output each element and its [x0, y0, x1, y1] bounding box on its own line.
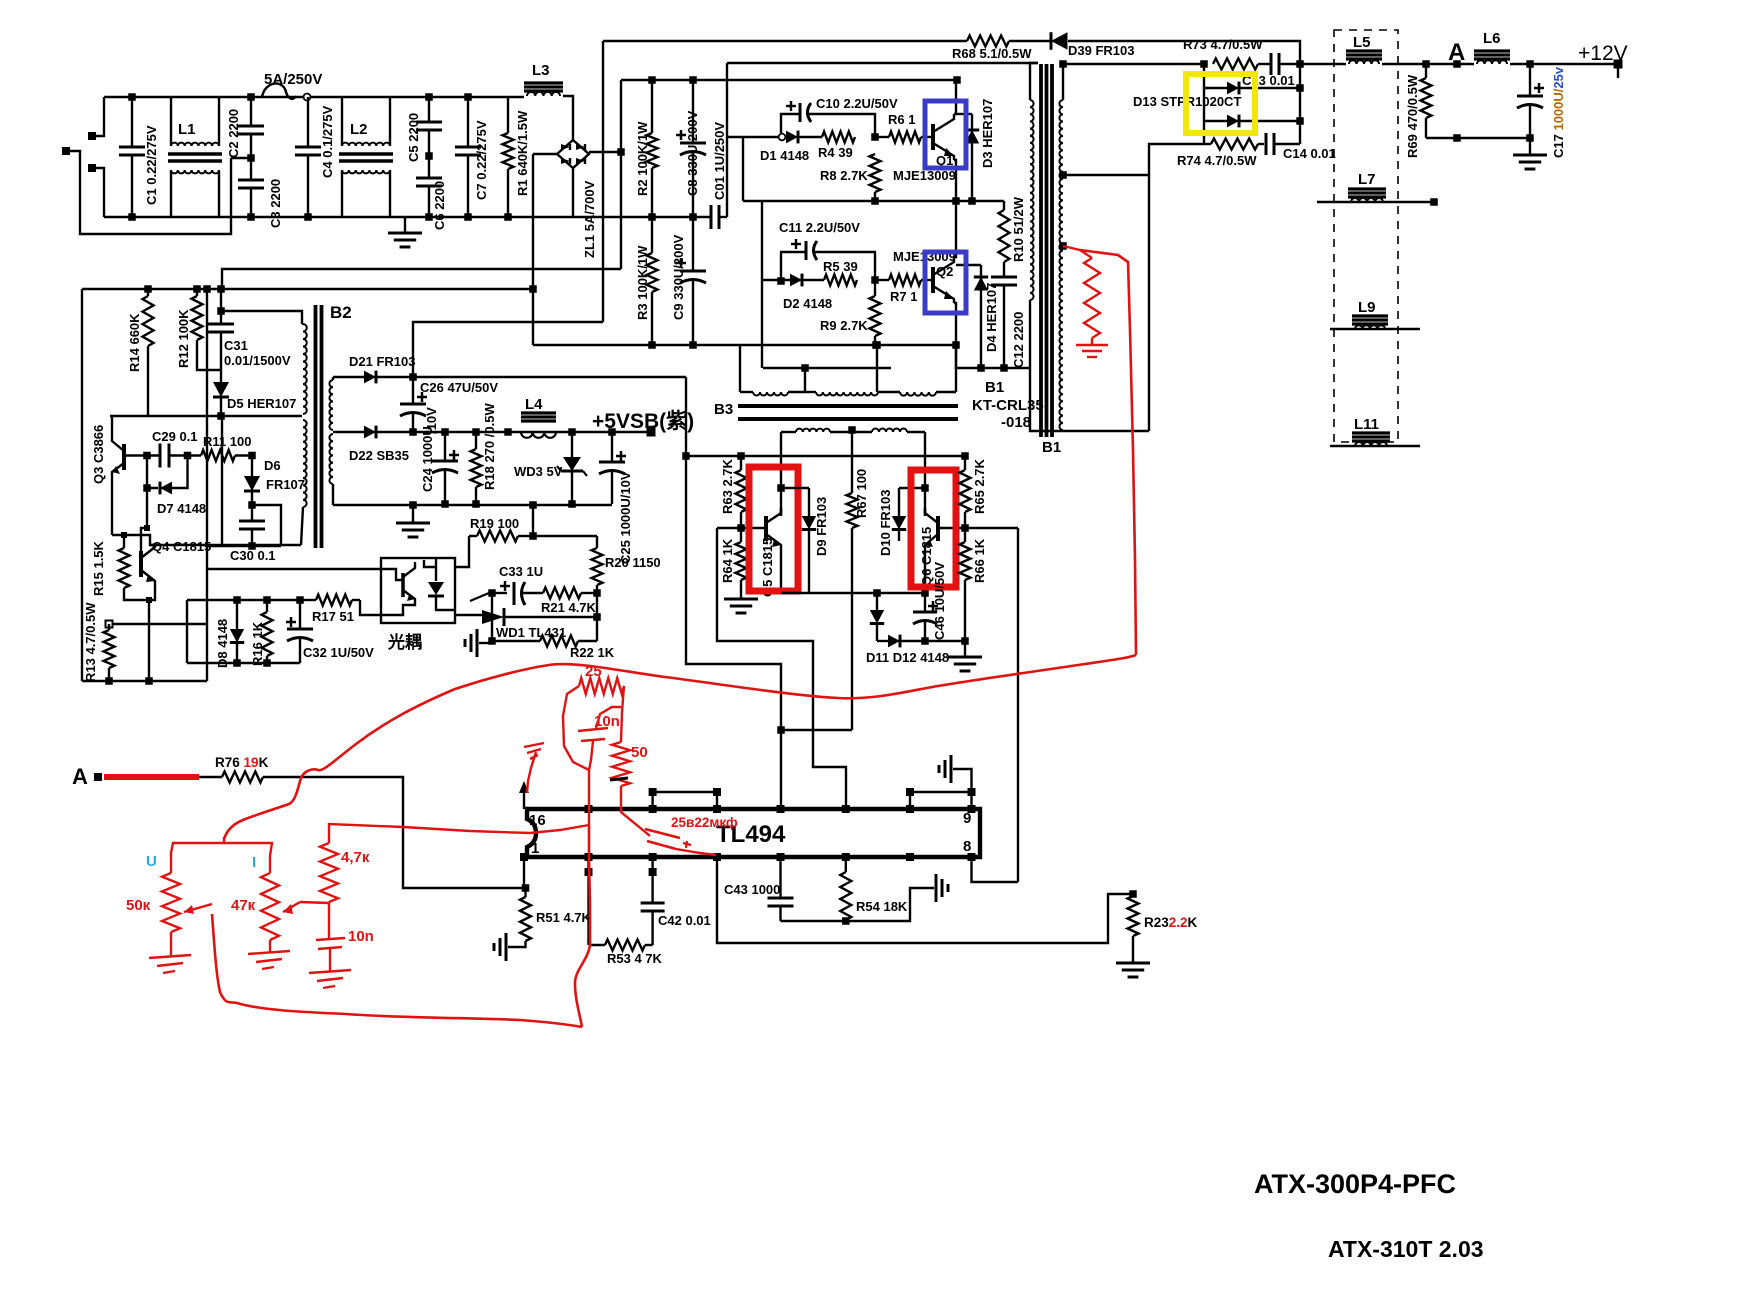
svg-text:FR107: FR107 — [266, 477, 305, 492]
wire long horizontal y289 — [82, 288, 533, 290]
resistor R20 1150 — [596, 536, 598, 548]
ground 5VSB — [412, 505, 414, 523]
capacitor C10 2.2U/50V — [781, 114, 800, 133]
zener WD3 5V — [571, 432, 573, 457]
wire midline y201 — [743, 200, 1004, 202]
blue box Q2 — [925, 252, 966, 313]
wire opto right bottom to WD1 — [455, 614, 482, 616]
wire B3 sec left riser — [780, 432, 782, 516]
shunt WD1 TL431 — [482, 610, 504, 624]
svg-text:R16 1K: R16 1K — [250, 621, 265, 666]
diode D7 4148 — [147, 456, 158, 489]
inductor L9 — [1330, 328, 1420, 330]
inductor L11 — [1330, 445, 1420, 447]
wire B3 primary risers — [876, 344, 878, 392]
svg-text:C42 0.01: C42 0.01 — [658, 913, 711, 928]
transformer B3 primary — [739, 344, 741, 392]
resistor R1 640K/1.5W — [507, 97, 509, 133]
capacitor C2 2200 — [250, 97, 252, 126]
wire mid rail y217 right — [573, 216, 711, 218]
resistor R4 39 — [822, 132, 855, 143]
svg-text:R10 51/2W: R10 51/2W — [1011, 196, 1026, 262]
inductor L6 — [1474, 49, 1510, 52]
ground D12 C46 — [964, 641, 966, 656]
resistor R53 4.7K — [589, 944, 606, 946]
svg-text:R63 2.7K: R63 2.7K — [720, 458, 735, 514]
svg-text:C30 0.1: C30 0.1 — [230, 548, 276, 563]
svg-text:D3 HER107: D3 HER107 — [980, 99, 995, 168]
capacitor C13 0.01 — [1258, 63, 1271, 65]
svg-text:B1: B1 — [1042, 439, 1061, 456]
wire top rail — [104, 96, 524, 98]
wire Q6 base ext — [965, 527, 1018, 529]
wire block bottom y416 — [110, 415, 302, 417]
wire base line left stair — [717, 528, 846, 805]
inductor L3 — [524, 81, 563, 84]
resistor R68 5.1/0.5W — [603, 40, 967, 42]
svg-text:D9 FR103: D9 FR103 — [814, 497, 829, 556]
node N2 — [871, 276, 879, 284]
TL494 bottom pin pads — [520, 853, 528, 861]
svg-text:10n: 10n — [348, 928, 374, 945]
wire D1 column x727 — [726, 63, 728, 217]
red resistor 4.7k — [320, 843, 338, 902]
wire long column x207 — [206, 289, 208, 681]
resistor R2 100K/1W — [651, 80, 653, 133]
capacitor C43 1000 — [779, 857, 781, 898]
transistor Q3 C3866 — [122, 444, 126, 470]
red capacitor 25v22uf — [645, 829, 680, 838]
transformer B3 core — [738, 404, 958, 408]
wire vertical x533 — [532, 154, 534, 345]
svg-text:4,7к: 4,7к — [341, 849, 370, 866]
wire B1 primary bottom — [1030, 368, 1149, 431]
wire rail riser to D21 line — [685, 377, 687, 456]
svg-text:WD1 TL431: WD1 TL431 — [496, 625, 566, 640]
capacitor C24 1000U — [444, 432, 446, 461]
wire R13 node to column — [113, 623, 207, 625]
svg-text:光耦: 光耦 — [387, 632, 422, 652]
resistor R3 100K/1W — [651, 217, 653, 253]
fuse 5A/250V — [262, 83, 296, 98]
resistor R63 2.7K — [740, 456, 742, 470]
resistor R18 270/0.5W — [475, 432, 477, 449]
wire WD1 link column — [491, 593, 493, 641]
svg-text:R73 4.7/0.5W: R73 4.7/0.5W — [1183, 37, 1263, 52]
red loop 25 left leg — [563, 686, 589, 825]
svg-text:L2: L2 — [350, 121, 368, 138]
transformer B2 primary — [302, 323, 303, 325]
inductor L7 — [1317, 201, 1434, 203]
B1 secondary tap2 — [1059, 242, 1067, 250]
wire R15 top — [123, 535, 125, 548]
wire vertical x621 DC+ — [620, 80, 622, 269]
svg-text:C46 10U/50V: C46 10U/50V — [932, 562, 947, 640]
capacitor C17 1000U/25v — [1529, 64, 1531, 96]
wire y663 line — [187, 662, 300, 664]
wire D21 line to right riser — [413, 376, 686, 378]
red wire from B1 to arc — [1080, 250, 1136, 655]
transistor Q5 C1815 — [764, 516, 768, 541]
diode D4 HER107 — [956, 264, 981, 266]
red potentiometer 50k — [162, 873, 180, 932]
svg-text:R1 640K/1.5W: R1 640K/1.5W — [515, 110, 530, 196]
inductor L2 — [341, 97, 343, 146]
svg-text:L7: L7 — [1358, 171, 1376, 188]
resistor R67 100 — [847, 493, 858, 528]
capacitor C32 1U/50V — [299, 600, 301, 629]
optocoupler LED — [435, 558, 437, 581]
red branch through TL494 — [575, 825, 590, 1027]
svg-text:C2 2200: C2 2200 — [226, 109, 241, 158]
svg-text:5A/250V: 5A/250V — [264, 71, 322, 88]
svg-text:C7 0.22/275V: C7 0.22/275V — [474, 120, 489, 200]
optocoupler box — [381, 558, 455, 623]
diode D11 4148 — [876, 593, 878, 610]
svg-text:D21 FR103: D21 FR103 — [349, 354, 415, 369]
capacitor C9 330U/200V — [692, 217, 694, 271]
svg-text:C4 0.1/275V: C4 0.1/275V — [320, 105, 335, 178]
resistor R65 2.7K — [964, 456, 966, 470]
wire Q5 emitter line y593 — [781, 592, 925, 594]
svg-text:R67 100: R67 100 — [854, 469, 869, 518]
svg-text:R4 39: R4 39 — [818, 145, 853, 160]
svg-text:0.01/1500V: 0.01/1500V — [224, 353, 291, 368]
wire rail y80 — [621, 79, 957, 81]
svg-text:R12 100K: R12 100K — [176, 309, 191, 368]
resistor R69 470/0.5W — [1425, 64, 1427, 78]
wire rail stair to TL494 — [686, 456, 781, 730]
wire bottom line y345 — [533, 344, 956, 346]
wire Q3 emitter to Q4 collector — [112, 535, 155, 545]
wire +12V rail — [1063, 63, 1204, 65]
red bottom curve — [212, 914, 582, 1027]
wire pin9 pad link — [970, 792, 972, 809]
wire y269 to left block — [222, 269, 621, 290]
diode D2 4148 — [762, 279, 790, 281]
svg-text:L5: L5 — [1353, 34, 1371, 51]
wire Q4 base — [141, 488, 147, 558]
wire y322 to B2 feed — [413, 322, 603, 377]
svg-text:R11 100: R11 100 — [203, 434, 251, 449]
svg-text:C32 1U/50V: C32 1U/50V — [303, 645, 374, 660]
svg-text:R76 19K: R76 19K — [215, 755, 269, 770]
transistor Q6 C1815 — [936, 516, 940, 541]
wire pin4 long bottom — [717, 857, 1130, 943]
resistor R9 2.7K — [874, 280, 876, 296]
wire bottom rail y681 — [82, 680, 207, 682]
svg-text:R22 1K: R22 1K — [570, 645, 615, 660]
svg-text:D5 HER107: D5 HER107 — [227, 396, 296, 411]
svg-text:R5 39: R5 39 — [823, 259, 858, 274]
resistor R19 100 — [469, 535, 477, 537]
svg-text:R8 2.7K: R8 2.7K — [820, 168, 868, 183]
wire B3 sec right riser — [924, 432, 926, 516]
wire Q2 emitter — [954, 303, 956, 345]
wire to +12V terminal — [1510, 63, 1618, 65]
red box Q5 — [749, 467, 798, 591]
svg-text:C8 330U/200V: C8 330U/200V — [685, 110, 700, 196]
diode D39 FR103 — [1051, 32, 1068, 50]
inductor L4 — [504, 428, 512, 436]
wire B2 top tap — [333, 376, 364, 378]
wire rail y456 — [686, 455, 965, 457]
capacitor C7 0.22/275V — [467, 97, 469, 147]
dashed box L5-L11 — [1334, 30, 1398, 442]
wire Q2 collector — [954, 201, 956, 257]
capacitor C25 1000U/10V — [611, 432, 613, 462]
red ground 10n — [309, 970, 351, 973]
svg-text:R19 100: R19 100 — [470, 516, 519, 531]
wire B2 mid tap — [333, 431, 364, 433]
svg-text:R64 1K: R64 1K — [720, 538, 735, 583]
svg-text:D7 4148: D7 4148 — [157, 501, 206, 516]
resistor R6 1 — [875, 136, 889, 138]
red resistor 25 — [579, 678, 624, 694]
svg-text:I: I — [252, 854, 256, 871]
wire +5VSB line — [413, 431, 651, 433]
resistor R22 1K — [492, 640, 540, 642]
terminal A — [94, 773, 102, 781]
svg-text:C14 0.01: C14 0.01 — [1283, 146, 1336, 161]
red capacitor 10n upper — [578, 728, 608, 731]
capacitor C12 2200 — [1003, 268, 1005, 277]
capacitor C42 0.01 — [651, 857, 653, 903]
resistor R7 1 — [875, 279, 889, 281]
red big arc — [224, 655, 1136, 839]
red ground 50k — [149, 955, 191, 958]
yellow box D13 — [1186, 74, 1255, 133]
resistor R15 1.5K — [119, 548, 130, 588]
diode D13 STPR1020CT — [1203, 64, 1205, 144]
svg-text:R66 1K: R66 1K — [972, 538, 987, 583]
wire A-line from R76 — [263, 777, 526, 888]
transformer B2 secondary — [332, 377, 334, 380]
B1 secondary tap — [1059, 171, 1067, 179]
svg-text:D1 4148: D1 4148 — [760, 148, 809, 163]
resistor R12 100K — [196, 289, 198, 296]
wire pin11 to ground — [910, 769, 972, 809]
red box Q6 — [911, 470, 956, 587]
resistor R51 4.7K — [520, 897, 531, 941]
resistor R16 1K — [266, 600, 268, 612]
resistor R64 1K — [740, 528, 742, 542]
blue box Q1 — [925, 101, 966, 168]
capacitor C8 330U/200V — [692, 80, 694, 143]
capacitor C26 47U/50V — [412, 377, 414, 404]
wire pin2 down — [587, 857, 589, 945]
transformer B1 core — [1039, 64, 1043, 437]
resistor R76 19K — [199, 776, 222, 778]
resistor R23 2.2K — [1128, 896, 1139, 936]
wire +12V rail right — [1300, 63, 1346, 65]
wire pin1 down — [523, 857, 525, 888]
red potentiometer 47k — [261, 873, 279, 940]
ground WD1 — [479, 642, 492, 644]
wire opto right top — [455, 536, 469, 567]
svg-text:L9: L9 — [1358, 299, 1376, 316]
transistor Q4 C1815 — [139, 551, 143, 577]
svg-text:+5VSB(紫): +5VSB(紫) — [592, 410, 694, 433]
wire y600 line — [187, 599, 300, 601]
svg-text:ATX-310T 2.03: ATX-310T 2.03 — [1328, 1236, 1484, 1262]
svg-text:R15 1.5K: R15 1.5K — [91, 540, 106, 596]
svg-text:50к: 50к — [126, 897, 151, 914]
resistor R74 4.7/0.5W — [1204, 143, 1211, 145]
svg-text:D39 FR103: D39 FR103 — [1068, 43, 1134, 58]
svg-text:B2: B2 — [330, 303, 352, 322]
svg-text:R68 5.1/0.5W: R68 5.1/0.5W — [952, 46, 1032, 61]
wire Q1 collector — [954, 80, 956, 114]
svg-text:C26 47U/50V: C26 47U/50V — [420, 380, 498, 395]
diode D3 HER107 — [956, 113, 972, 115]
ground at filter — [404, 217, 406, 233]
wire Q4 collector to B2 — [150, 544, 155, 546]
capacitor C30 0.1 — [251, 491, 253, 505]
svg-text:16: 16 — [529, 812, 546, 829]
capacitor C6 2200 — [428, 156, 430, 178]
svg-text:Q4 C1815: Q4 C1815 — [152, 539, 211, 554]
red wire 4.7k top — [329, 824, 589, 843]
svg-text:L1: L1 — [178, 121, 196, 138]
wire line A y63 — [727, 62, 1038, 64]
wire R74 return — [1149, 144, 1204, 431]
wire Q3 base — [124, 454, 160, 456]
diode D21 FR103 — [364, 371, 376, 384]
ground C17 — [1513, 154, 1547, 157]
svg-text:D10 FR103: D10 FR103 — [878, 490, 893, 556]
svg-text:R20 1150: R20 1150 — [605, 555, 661, 570]
svg-text:C31: C31 — [224, 338, 248, 353]
svg-text:C17 1000U/25v: C17 1000U/25v — [1551, 66, 1566, 158]
svg-text:D8 4148: D8 4148 — [215, 619, 230, 668]
red resistor on B1 secondary — [1063, 246, 1080, 250]
node N1 — [871, 133, 879, 141]
TL494 top pin pads — [585, 805, 593, 813]
wire B2 primary top link — [221, 311, 302, 324]
capacitor C3 2200 — [250, 158, 252, 180]
wire column x222 down — [221, 416, 223, 545]
capacitor C29 0.1 — [159, 444, 162, 468]
svg-text:ATX-300P4-PFC: ATX-300P4-PFC — [1254, 1169, 1456, 1199]
IC TL494 body — [527, 809, 980, 857]
wire bridge right to vertical x621 — [589, 151, 621, 153]
wire y569 line — [207, 568, 381, 570]
svg-text:47к: 47к — [231, 897, 256, 914]
red wire pots top feed — [171, 837, 224, 873]
svg-text:R53 4 7K: R53 4 7K — [607, 951, 663, 966]
svg-text:B3: B3 — [714, 401, 733, 418]
capacitor C14 0.01 — [1265, 133, 1268, 155]
wire pin16 stub arrow — [523, 790, 525, 809]
svg-text:R69 470/0.5W: R69 470/0.5W — [1405, 74, 1420, 158]
svg-text:R13 4.7/0.5W: R13 4.7/0.5W — [83, 602, 98, 682]
B1 secondary bottom — [1062, 430, 1064, 431]
svg-text:U: U — [146, 853, 157, 870]
ground R23 — [1132, 936, 1134, 962]
wire D1 node to midline — [742, 137, 744, 201]
diode D1 4148 — [727, 136, 779, 138]
wire C43/R54 bottom node — [781, 888, 935, 921]
ground R64 — [724, 598, 758, 601]
resistor R8 2.7K — [874, 192, 876, 201]
red wire 50 to cap — [621, 786, 650, 836]
capacitor C1 0.22/275V — [131, 97, 133, 147]
svg-text:10n: 10n — [594, 713, 620, 730]
wire pin8 to right column — [972, 857, 1019, 882]
svg-text:R54 18K: R54 18K — [856, 899, 908, 914]
svg-text:C3 2200: C3 2200 — [268, 179, 283, 228]
wire R12 jog — [197, 340, 221, 370]
transformer B2 core — [314, 305, 318, 548]
inductor L1 — [170, 97, 172, 146]
svg-text:D4 HER107: D4 HER107 — [984, 283, 999, 352]
wire Q1 emitter to midline — [954, 160, 956, 201]
wire x187 link — [186, 600, 188, 663]
capacitor C01 1U/250V — [710, 205, 713, 229]
resistor R10 51/2W — [1003, 201, 1005, 210]
capacitor C33 1U — [492, 592, 507, 594]
svg-text:D6: D6 — [264, 458, 281, 473]
resistor R66 1K — [964, 528, 966, 542]
svg-text:C33 1U: C33 1U — [499, 564, 543, 579]
red ground — [1091, 338, 1093, 344]
wire y368 segment — [956, 345, 1030, 368]
transformer B1 secondary winding — [1062, 64, 1064, 100]
ground bottom node — [935, 874, 938, 902]
capacitor C31 0.01/1500V — [220, 289, 222, 324]
svg-text:25: 25 — [585, 663, 602, 680]
svg-text:Q3 C3866: Q3 C3866 — [91, 425, 106, 484]
diode D12 4148 — [877, 640, 888, 642]
transistor Q1 MJE13009 — [931, 124, 935, 150]
resistor R14 660K — [147, 289, 149, 296]
svg-text:8: 8 — [963, 838, 971, 855]
wire Q2 cell left x762 — [761, 201, 763, 368]
wire R68 feed vertical x603 — [602, 41, 604, 322]
svg-text:R14 660K: R14 660K — [127, 313, 142, 372]
svg-text:R21 4.7K: R21 4.7K — [541, 600, 597, 615]
resistor R73 4.7/0.5W — [1213, 59, 1258, 70]
svg-text:R65 2.7K: R65 2.7K — [972, 458, 987, 514]
svg-text:C25 1000U/10V: C25 1000U/10V — [618, 471, 633, 564]
svg-text:R74 4.7/0.5W: R74 4.7/0.5W — [1177, 153, 1257, 168]
resistor R54 18K — [845, 857, 847, 872]
svg-text:D22 SB35: D22 SB35 — [349, 448, 409, 463]
svg-text:R51 4.7K: R51 4.7K — [536, 910, 592, 925]
wire Q4/R15 bottom to rail — [124, 588, 149, 600]
svg-text:C01 1U/250V: C01 1U/250V — [712, 122, 727, 200]
resistor R5 39 — [824, 275, 857, 286]
svg-text:R17 51: R17 51 — [312, 609, 354, 624]
svg-text:D11 D12 4148: D11 D12 4148 — [866, 650, 949, 665]
capacitor C11 2.2U/50V — [781, 252, 806, 278]
svg-text:R18 270 /0.5W: R18 270 /0.5W — [482, 403, 497, 490]
resistor R21 4.7K — [581, 592, 597, 594]
svg-text:L11: L11 — [1354, 416, 1379, 433]
svg-text:R3 100K/1W: R3 100K/1W — [635, 245, 650, 320]
wire to R20 — [533, 535, 597, 537]
svg-text:R6 1: R6 1 — [888, 112, 915, 127]
capacitor C46 10U/50V — [924, 593, 926, 612]
diode D5 HER107 — [213, 382, 229, 397]
svg-text:C5 2200: C5 2200 — [406, 113, 421, 162]
wire R19 to rail — [532, 505, 534, 536]
wire 5VSB bottom rail — [333, 504, 612, 506]
transformer B3 secondary — [781, 431, 796, 433]
wire pin14-13 loop — [653, 792, 717, 809]
wire pin8 right column — [1017, 528, 1019, 882]
